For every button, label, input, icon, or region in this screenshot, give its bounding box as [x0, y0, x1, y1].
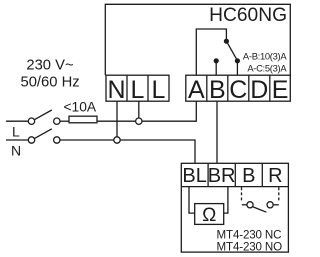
svg-text:Ω: Ω	[202, 205, 216, 226]
svg-text:N: N	[107, 76, 125, 104]
svg-text:A: A	[188, 76, 205, 104]
svg-text:MT4-230 NO: MT4-230 NO	[217, 240, 283, 253]
svg-text:L: L	[131, 76, 145, 104]
svg-text:C: C	[229, 76, 247, 104]
svg-text:L: L	[12, 123, 20, 139]
svg-text:B: B	[209, 76, 226, 104]
svg-text:HC60NG: HC60NG	[209, 5, 287, 26]
svg-text:L: L	[152, 76, 166, 104]
svg-text:BL: BL	[182, 165, 206, 187]
svg-text:A-C:5(3)A: A-C:5(3)A	[247, 62, 287, 73]
svg-text:B: B	[242, 165, 255, 187]
svg-text:50/60 Hz: 50/60 Hz	[20, 74, 79, 90]
svg-text:<10A: <10A	[63, 100, 96, 115]
svg-text:D: D	[250, 76, 268, 104]
svg-text:R: R	[268, 165, 282, 187]
svg-text:230 V~: 230 V~	[26, 57, 73, 73]
svg-text:E: E	[272, 76, 289, 104]
svg-text:A-B:10(3)A: A-B:10(3)A	[243, 50, 287, 61]
svg-text:N: N	[11, 143, 21, 159]
svg-text:BR: BR	[208, 165, 236, 187]
